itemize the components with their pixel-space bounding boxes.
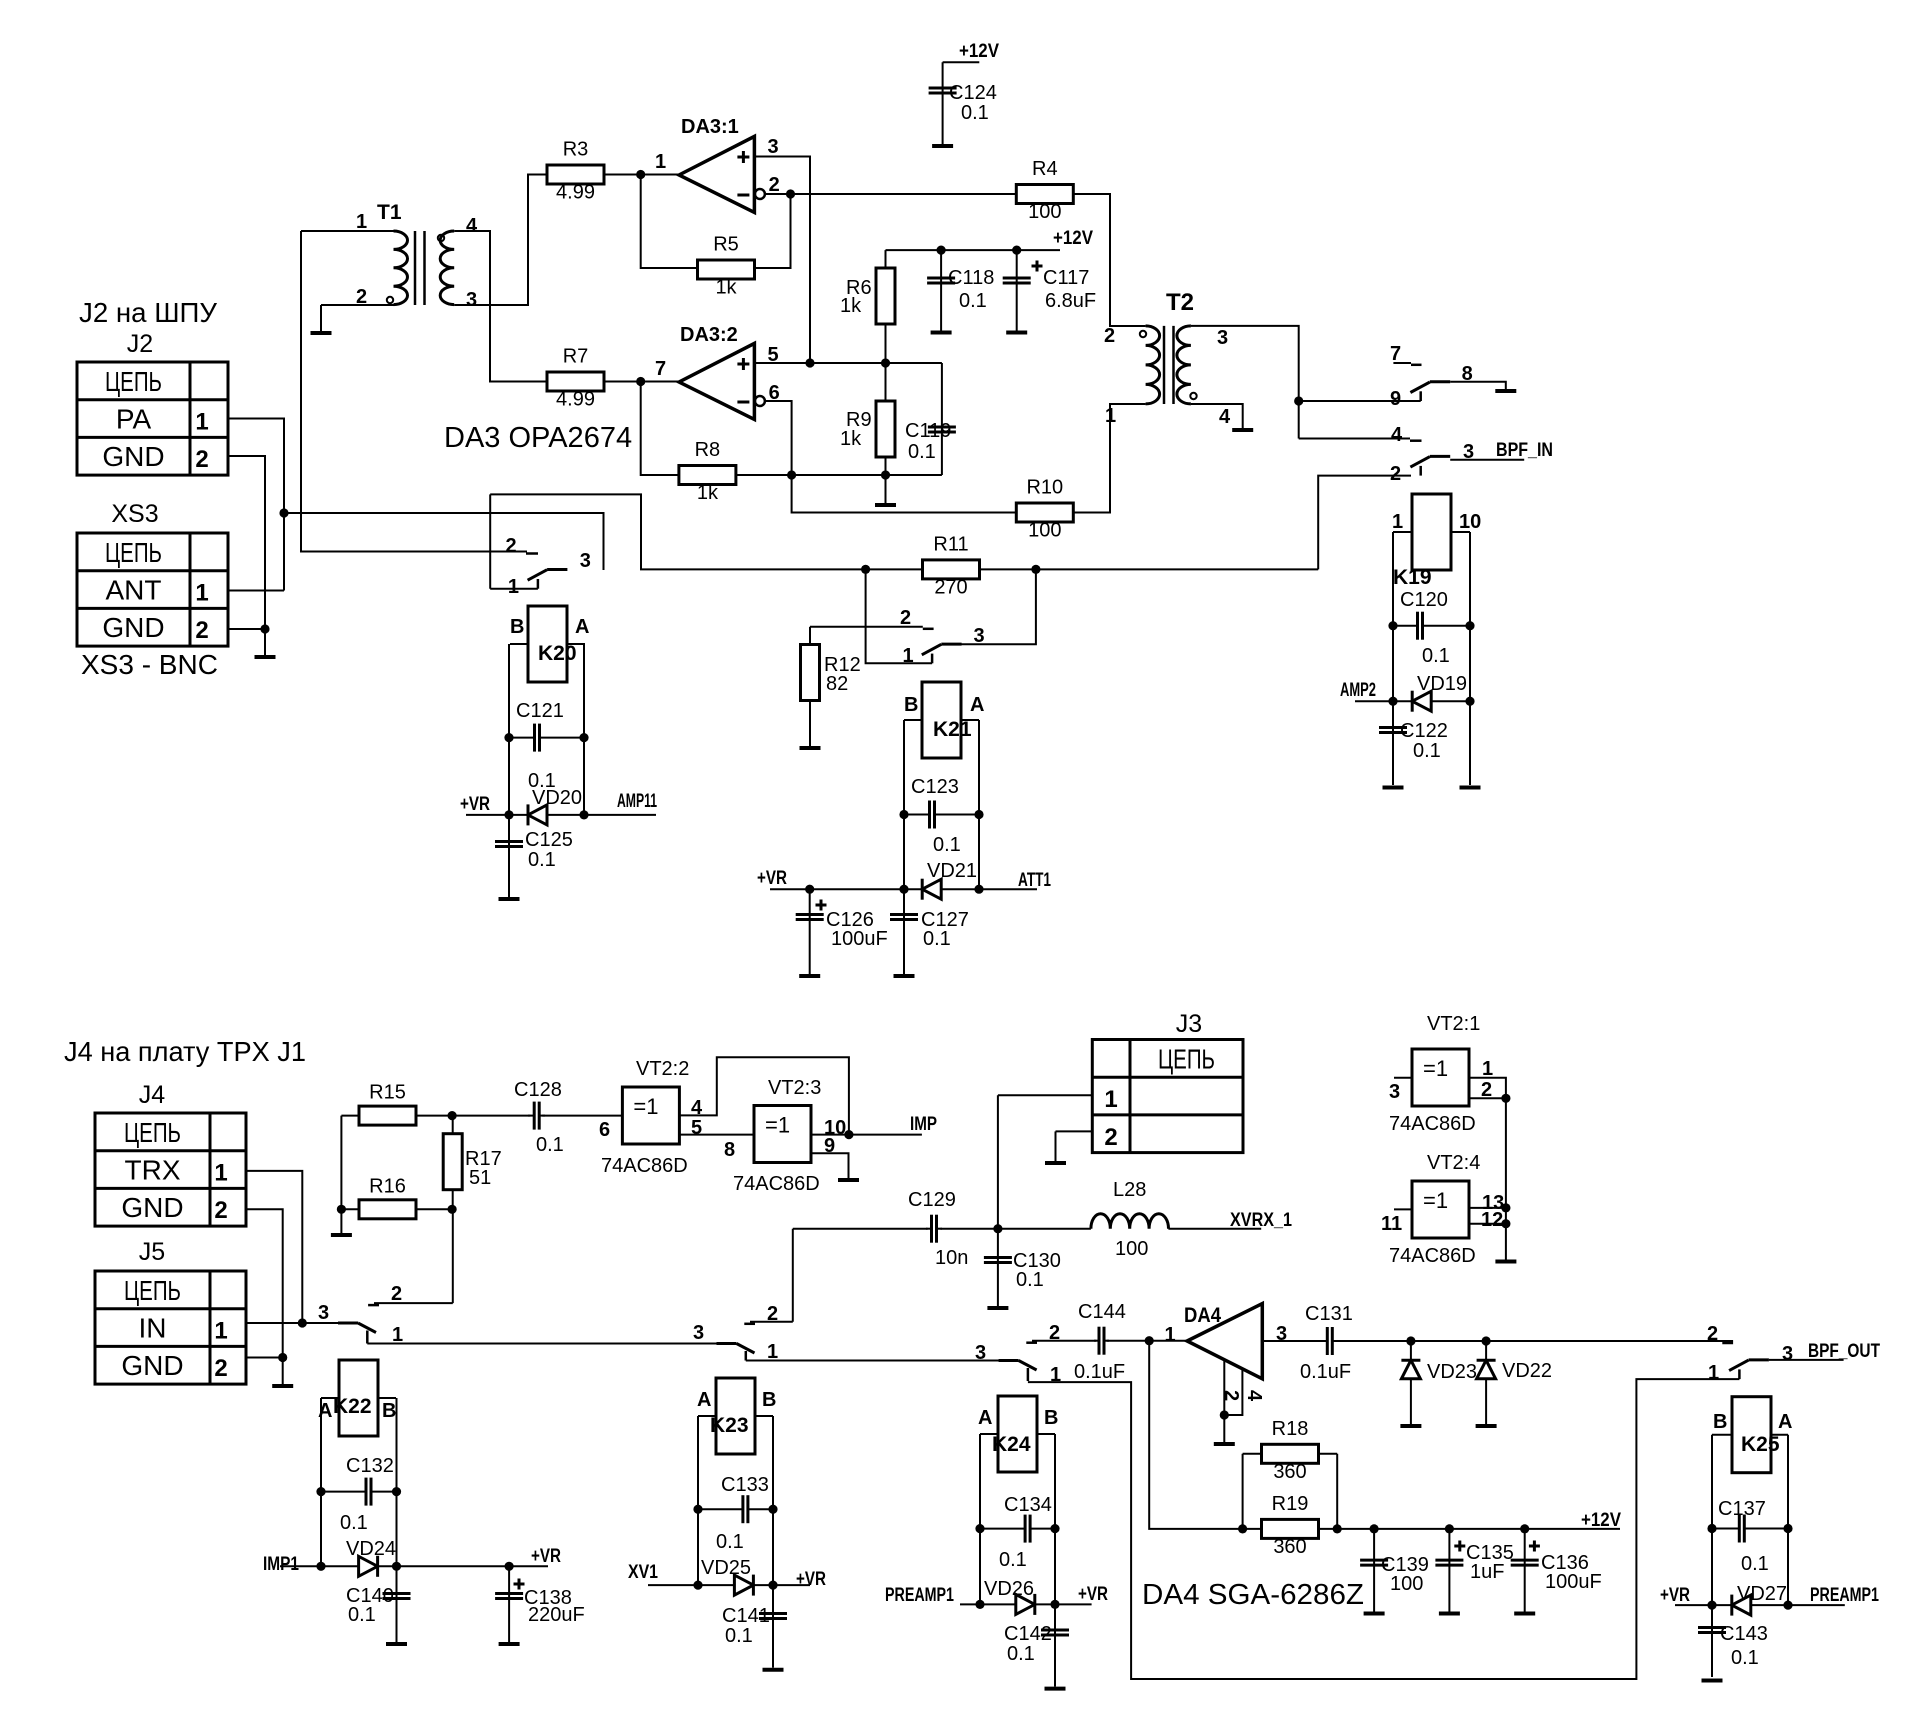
wire C144 to DA4 (1107, 1340, 1187, 1342)
svg-text:=1: =1 (1423, 1188, 1448, 1213)
capacitor C137 (1712, 1498, 1788, 1575)
svg-text:XVRX_1: XVRX_1 (1230, 1210, 1292, 1231)
svg-text:2: 2 (1707, 1323, 1718, 1345)
svg-text:ЦЕПЬ: ЦЕПЬ (124, 1117, 181, 1148)
net label +VR (757, 868, 787, 889)
svg-text:0.1uF: 0.1uF (1074, 1361, 1125, 1383)
wire R12 bottom (809, 701, 811, 746)
svg-text:A: A (575, 616, 589, 638)
ground C141 (763, 1668, 784, 1672)
capacitor C122 (1379, 720, 1448, 762)
wire R17 bottom (452, 1190, 454, 1210)
svg-text:K24: K24 (992, 1433, 1031, 1456)
junction C136 (1520, 1524, 1529, 1533)
ground C138 (499, 1642, 520, 1646)
wire +12V rail (886, 249, 1061, 251)
wire R3 to DA3:1 pin1 (604, 174, 679, 176)
wire J3 pin1 (998, 1094, 1092, 1096)
svg-text:0.1: 0.1 (1731, 1647, 1759, 1669)
svg-text:B: B (510, 616, 524, 638)
pin A of K23 (697, 1389, 711, 1411)
svg-text:0.1uF: 0.1uF (1300, 1361, 1351, 1383)
svg-text:0.1: 0.1 (999, 1549, 1027, 1571)
wire VT2:1 pin1 down (1468, 1078, 1506, 1260)
svg-text:0.1: 0.1 (1016, 1269, 1044, 1291)
ground T2 pin4 (1232, 428, 1253, 432)
svg-text:2: 2 (767, 1303, 778, 1325)
wire J5 GND (246, 1357, 283, 1359)
pin 1 of T1 (356, 211, 367, 233)
svg-text:BPF_OUT: BPF_OUT (1808, 1341, 1880, 1362)
wire VD22 bottom (1485, 1379, 1487, 1424)
net label PREAMP1 (1810, 1585, 1879, 1606)
svg-text:100uF: 100uF (1545, 1571, 1602, 1593)
capacitor C119 (905, 420, 956, 463)
relay coil K23 (698, 1378, 773, 1454)
svg-text:0.1: 0.1 (340, 1512, 368, 1534)
svg-text:74AC86D: 74AC86D (1389, 1245, 1476, 1267)
wire +12V rail bottom (1319, 1528, 1621, 1530)
svg-text:4: 4 (1243, 1390, 1265, 1402)
svg-text:3: 3 (466, 289, 477, 311)
junction VT2:4 pin12 (1501, 1219, 1510, 1228)
wire K21 B down (903, 720, 905, 889)
svg-text:R7: R7 (563, 346, 589, 368)
wire C128 to VT2:2 (542, 1115, 622, 1117)
svg-text:VD25: VD25 (701, 1557, 751, 1579)
relay coil K25 (1712, 1397, 1788, 1473)
wire K20 A down (583, 644, 585, 815)
svg-text:DA4: DA4 (1184, 1304, 1221, 1327)
capacitor C139 (1360, 1554, 1429, 1595)
svg-text:1uF: 1uF (1470, 1561, 1504, 1583)
svg-text:DA4 SGA-6286Z: DA4 SGA-6286Z (1142, 1579, 1364, 1611)
wire VD25 to +VR (773, 1584, 810, 1586)
pin B of K25 (1713, 1411, 1727, 1433)
svg-text:J2: J2 (127, 330, 153, 358)
pin 4 of contact (1391, 424, 1403, 446)
wire T1 pin4 to R7 (454, 231, 547, 382)
stub contact 4 tick (1410, 439, 1422, 442)
svg-text:GND: GND (102, 612, 164, 643)
wire J2 GND down (228, 456, 265, 655)
svg-text:+VR: +VR (796, 1569, 826, 1590)
junction node ANT/PA (279, 508, 288, 517)
svg-text:4: 4 (1391, 424, 1403, 446)
svg-text:R19: R19 (1272, 1493, 1309, 1515)
pin 13 of VT2:4 (1482, 1192, 1504, 1214)
junction C139 (1370, 1524, 1379, 1533)
junction R15 R17 (448, 1111, 457, 1120)
svg-text:0.1: 0.1 (933, 834, 961, 856)
pin 5 of DA3:2 (768, 344, 779, 366)
svg-text:100: 100 (1115, 1238, 1148, 1260)
pin 1 of DA3:1 (655, 151, 666, 173)
junction VD24 left (316, 1562, 325, 1571)
svg-text:3: 3 (580, 550, 591, 572)
svg-text:R10: R10 (1026, 477, 1063, 499)
svg-text:6: 6 (599, 1119, 610, 1141)
wire DA3:1 pin2 to R4 (766, 193, 1017, 195)
svg-text:1: 1 (1104, 1086, 1117, 1113)
svg-text:0.1: 0.1 (1413, 740, 1441, 762)
svg-text:74AC86D: 74AC86D (1389, 1113, 1476, 1135)
logic gate VT2:3 (733, 1077, 821, 1195)
junction C134 right (1050, 1524, 1059, 1533)
pin A of K22 (318, 1400, 332, 1422)
svg-text:VT2:2: VT2:2 (636, 1058, 689, 1080)
junction C138 (505, 1562, 514, 1571)
svg-text:C123: C123 (911, 776, 959, 798)
net label BPF_IN (1496, 440, 1553, 461)
wire DA4 in to R19 (1149, 1341, 1242, 1529)
svg-text:DA3:1: DA3:1 (681, 116, 739, 138)
svg-text:C122: C122 (1400, 720, 1448, 742)
connector table J5 (95, 1238, 246, 1384)
capacitor C128 (514, 1079, 564, 1156)
junction VD23 (1406, 1336, 1415, 1345)
svg-text:0.1: 0.1 (725, 1625, 753, 1647)
wire DA4 gnd (1223, 1415, 1225, 1442)
capacitor C134 (980, 1494, 1055, 1571)
junction R6 R9 (881, 358, 890, 367)
junction R11 left (861, 565, 870, 574)
svg-text:T2: T2 (1166, 289, 1194, 316)
svg-text:0.1: 0.1 (961, 102, 989, 124)
net label XV1 (628, 1562, 658, 1583)
wire T2 pin3 right (1191, 326, 1299, 439)
wire C139 branch (1373, 1529, 1375, 1612)
svg-text:1: 1 (1165, 1324, 1176, 1346)
pin 7 of DA3:2 (655, 358, 666, 380)
ground C139 (1364, 1612, 1385, 1616)
capacitor C124 (929, 82, 997, 124)
wire R11 right (980, 568, 1036, 570)
svg-text:+VR: +VR (460, 794, 490, 815)
svg-text:C125: C125 (525, 829, 573, 851)
op-amp DA3:1 (679, 136, 765, 212)
svg-text:1: 1 (1708, 1362, 1719, 1384)
net label IMP1 (263, 1554, 299, 1575)
value R9 1k (840, 428, 862, 450)
svg-text:K25: K25 (1741, 1433, 1780, 1456)
svg-text:GND: GND (102, 441, 164, 472)
wire K20 B down (508, 644, 510, 815)
pin 9 of K19 contact (1390, 388, 1401, 410)
svg-text:6.8uF: 6.8uF (1045, 290, 1096, 312)
wire K22 B down (396, 1398, 398, 1566)
transformer T2 (1140, 289, 1197, 404)
junction C133 right (768, 1505, 777, 1514)
svg-text:8: 8 (724, 1139, 735, 1161)
wire XV1 (648, 1584, 698, 1586)
svg-text:1: 1 (195, 580, 208, 607)
ground DA4 (1214, 1442, 1235, 1446)
svg-text:0.1: 0.1 (1741, 1553, 1769, 1575)
wire K21 A down (978, 720, 980, 889)
label R12 (824, 654, 861, 676)
svg-text:R15: R15 (369, 1082, 406, 1104)
IC label DA4 SGA-6286Z (1142, 1579, 1364, 1611)
svg-text:360: 360 (1273, 1536, 1306, 1558)
svg-text:AMP2: AMP2 (1340, 680, 1376, 701)
svg-text:IMP1: IMP1 (263, 1554, 299, 1575)
junction DA4 in (1145, 1336, 1154, 1345)
junction VT2:4 pin13 (1501, 1203, 1510, 1212)
net label +12V (959, 41, 999, 62)
junction pin1 feedback (636, 170, 645, 179)
net label +VR (531, 1546, 561, 1567)
junction C132 right (392, 1487, 401, 1496)
switch contact K22 3-1 (338, 1323, 376, 1344)
svg-text:B: B (762, 1389, 776, 1411)
wire K19 pin1 down (1392, 532, 1394, 785)
svg-text:51: 51 (469, 1167, 491, 1189)
ground C142 (1045, 1687, 1066, 1691)
capacitor C126 (796, 900, 888, 951)
capacitor C121 (509, 700, 584, 792)
ground T1 pin2 (311, 331, 332, 335)
ground C140 (386, 1642, 407, 1646)
svg-text:C117: C117 (1043, 267, 1089, 289)
diode VD25 (698, 1557, 773, 1596)
svg-text:K21: K21 (933, 718, 972, 741)
wire R11 left to K21 contact 1 (866, 569, 933, 663)
junction C135 (1445, 1524, 1454, 1533)
wire K24 A down (979, 1434, 981, 1604)
svg-text:+VR: +VR (531, 1546, 561, 1567)
connector table J3 (1092, 1010, 1243, 1153)
svg-text:C124: C124 (949, 82, 997, 104)
resistor R10 (1016, 477, 1073, 542)
value R6 1k (840, 295, 862, 317)
wire PREAMP1 K25 (1788, 1604, 1845, 1606)
wire IMP (811, 1134, 922, 1136)
ground J5 GND (272, 1384, 293, 1388)
junction VD26 left (975, 1600, 984, 1609)
stub K22 contact 2 (368, 1303, 453, 1305)
wire K21 contact 3 up (962, 569, 1036, 644)
pin 3 of K20 contact (580, 550, 591, 572)
junction R16 left (337, 1205, 346, 1214)
junction C117 (1012, 246, 1021, 255)
resistor R18 (1262, 1418, 1319, 1483)
svg-text:C119: C119 (905, 420, 951, 442)
pin 1 of K23 contact (767, 1341, 778, 1363)
junction pin2 (786, 189, 795, 198)
svg-text:=1: =1 (633, 1094, 658, 1119)
junction VD21 left (899, 885, 908, 894)
junction DA4 pins 2 4 (1220, 1410, 1229, 1419)
svg-text:C128: C128 (514, 1079, 562, 1101)
wire R7 to DA3:2 pin7 (604, 381, 679, 383)
pin 3 of K22 contact (318, 1302, 329, 1324)
wire node to K20 contact 3 (284, 513, 604, 570)
pin 12 of VT2:4 (1481, 1209, 1503, 1231)
svg-text:=1: =1 (1423, 1056, 1448, 1081)
svg-text:2: 2 (214, 1197, 227, 1224)
svg-text:A: A (970, 694, 984, 716)
svg-text:R5: R5 (713, 234, 739, 256)
pin 3 of K23 contact (693, 1322, 704, 1344)
wire J3 pin2 (1056, 1130, 1093, 1132)
diode VD23 (1401, 1360, 1477, 1383)
resistor R19 (1262, 1493, 1319, 1558)
pin 2 of K25 contact (1707, 1323, 1718, 1345)
wire contact 8 to ground (1450, 382, 1506, 389)
ground VT2 unused (1495, 1260, 1516, 1264)
svg-text:2: 2 (1104, 1124, 1117, 1151)
svg-text:+VR: +VR (1660, 1585, 1690, 1606)
wire DA3:2 pin5 (754, 362, 942, 364)
svg-text:J4 на плату TPX J1: J4 на плату TPX J1 (64, 1036, 306, 1067)
pin B of K24 (1044, 1407, 1058, 1429)
wire K25 B down (1711, 1435, 1713, 1677)
diode VD21 (904, 860, 979, 900)
svg-text:XS3: XS3 (111, 500, 158, 528)
wire VT2:4 pin13 (1468, 1207, 1506, 1209)
svg-text:R16: R16 (369, 1175, 406, 1197)
svg-text:ЦЕПЬ: ЦЕПЬ (105, 366, 162, 397)
wire T2 pin4 to ground (1191, 404, 1243, 428)
svg-text:GND: GND (121, 1192, 183, 1223)
wire to C129 (793, 1228, 928, 1230)
junction C121 left (504, 733, 513, 742)
svg-text:2: 2 (900, 607, 911, 629)
net label +12V (1581, 1510, 1621, 1531)
wire K25 A down (1787, 1435, 1789, 1605)
svg-text:1: 1 (508, 576, 519, 598)
svg-text:B: B (1044, 1407, 1058, 1429)
wire R8 to node (736, 474, 942, 476)
relay coil K19 (1393, 494, 1470, 589)
wire C129 to L28 (940, 1228, 1091, 1230)
svg-text:K23: K23 (710, 1414, 749, 1437)
ground R16 left (331, 1233, 352, 1237)
capacitor C140 (346, 1585, 411, 1626)
junction VD24 right (392, 1562, 401, 1571)
junction VD26 right (1050, 1600, 1059, 1609)
svg-text:1k: 1k (840, 428, 862, 450)
wire R9 bottom (885, 457, 887, 503)
wire C142 branch (1054, 1604, 1056, 1686)
wire VT2:2 pin4 loop (680, 1057, 849, 1134)
svg-text:0.1: 0.1 (908, 441, 936, 463)
pin B of K20 (510, 616, 524, 638)
capacitor C135 (1435, 1541, 1513, 1584)
net label +VR (1660, 1585, 1690, 1606)
svg-text:3: 3 (974, 625, 985, 647)
wire J4 GND down (246, 1209, 283, 1384)
wire to contact 4 (1299, 438, 1410, 440)
svg-text:ЦЕПЬ: ЦЕПЬ (1158, 1043, 1215, 1074)
capacitor C129 (908, 1189, 968, 1269)
net label +12V (1053, 228, 1093, 249)
wire R17 top (452, 1116, 454, 1134)
pin 2 of VT2:1 (1481, 1079, 1492, 1101)
wire C124 branch (942, 62, 944, 144)
pin 6 of VT2:2 (599, 1119, 610, 1141)
svg-text:0.1: 0.1 (536, 1134, 564, 1156)
junction T2 pin3 node (1294, 396, 1303, 405)
pin 1 of K19 (1392, 511, 1403, 533)
svg-text:PREAMP1: PREAMP1 (885, 1585, 954, 1606)
pin 1 of K25 contact (1708, 1362, 1719, 1384)
svg-text:A: A (978, 1407, 992, 1429)
svg-text:2: 2 (195, 446, 208, 473)
diode VD19 (1393, 673, 1470, 712)
svg-text:3: 3 (768, 136, 779, 158)
ground C126 (799, 974, 820, 978)
svg-text:1: 1 (392, 1324, 403, 1346)
wire K22 A down (320, 1398, 322, 1566)
svg-text:J5: J5 (139, 1238, 165, 1266)
svg-text:=1: =1 (765, 1113, 790, 1138)
switch contact K23 3-1 (717, 1344, 755, 1361)
title J2 na ShPU (79, 297, 217, 328)
svg-text:12: 12 (1481, 1209, 1503, 1231)
stub K25 contact 2 tick (1722, 1342, 1733, 1345)
pin 3 of T2 (1217, 327, 1228, 349)
wire C135 branch (1448, 1529, 1450, 1612)
ground VD23 (1400, 1424, 1421, 1428)
svg-text:1: 1 (1392, 511, 1403, 533)
wire R11 node to contact 2 (1318, 476, 1411, 570)
capacitor C138 (495, 1579, 585, 1627)
pin 10 of VT2:3 (824, 1117, 846, 1139)
svg-text:+12V: +12V (1053, 228, 1093, 249)
wire node to R10 (792, 475, 1017, 513)
svg-text:C118: C118 (948, 267, 994, 289)
wire J3 pin2 down (1055, 1131, 1057, 1161)
wire DA4 out (1262, 1340, 1324, 1342)
wire R16 left (341, 1208, 358, 1210)
svg-text:5: 5 (691, 1117, 702, 1139)
svg-text:PREAMP1: PREAMP1 (1810, 1585, 1879, 1606)
pin 4 of VT2:2 (691, 1097, 703, 1119)
capacitor C133 (698, 1474, 773, 1553)
wire C130 branch (997, 1229, 999, 1306)
svg-text:K20: K20 (538, 642, 577, 665)
svg-text:ЦЕПЬ: ЦЕПЬ (124, 1275, 181, 1306)
capacitor C120 (1393, 589, 1470, 667)
svg-text:VD27: VD27 (1737, 1583, 1787, 1605)
resistor R12 (801, 645, 820, 701)
svg-text:3: 3 (1217, 327, 1228, 349)
ground C136 (1514, 1612, 1535, 1616)
junction VD19 right (1465, 697, 1474, 706)
svg-text:C142: C142 (1004, 1623, 1052, 1645)
pin 7 of K19 contact (1390, 343, 1401, 365)
capacitor C141 (722, 1605, 787, 1647)
capacitor C142 (1004, 1623, 1069, 1665)
pin 8 of VT2:3 (724, 1139, 735, 1161)
svg-text:ЦЕПЬ: ЦЕПЬ (105, 537, 162, 568)
wire +VR to VD20 (466, 814, 509, 816)
wire T1 pin1 down to K20 contact 2 (301, 231, 527, 552)
diode VD27 (1712, 1583, 1788, 1616)
pin 2 of contact (1390, 463, 1401, 485)
capacitor C118 (927, 267, 994, 312)
svg-text:1: 1 (356, 211, 367, 233)
ground C127 (894, 974, 915, 978)
value R12 82 (826, 673, 848, 695)
wire K23 B down (772, 1416, 774, 1585)
svg-text:C120: C120 (1400, 589, 1448, 611)
pin 3 of DA3:1 (768, 136, 779, 158)
diode VD26 (980, 1578, 1055, 1615)
svg-text:DA3:2: DA3:2 (680, 324, 738, 346)
